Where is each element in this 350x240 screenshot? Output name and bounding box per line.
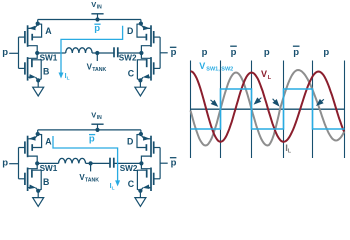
svg-text:p: p <box>264 47 270 58</box>
capacitor C tank <box>113 47 115 57</box>
wire: P input <box>9 52 18 54</box>
svg-text:p: p <box>202 47 208 58</box>
wire: Pbar input <box>160 52 168 54</box>
capacitor C tank <box>109 158 111 168</box>
cyan current route ckt2 <box>53 136 118 182</box>
transistor A (PMOS) <box>19 130 42 164</box>
wire: left gate bus <box>18 148 20 179</box>
ground <box>33 87 44 96</box>
wire: P input <box>9 163 18 165</box>
node SW2 <box>139 161 143 165</box>
wire: right gate bus <box>159 37 161 68</box>
svg-text:p: p <box>171 158 177 169</box>
svg-text:p: p <box>293 47 299 58</box>
node SW1 <box>35 51 39 55</box>
transistor D (PMOS) <box>137 20 160 54</box>
svg-text:p: p <box>323 47 329 58</box>
chart arrows at zero crossings <box>211 100 216 104</box>
wire: top rail <box>38 19 141 21</box>
svg-text:V: V <box>261 69 267 79</box>
wire cap to SW2 <box>118 52 142 54</box>
transistor B (NMOS) <box>19 163 42 197</box>
svg-text:D: D <box>127 136 133 146</box>
transistor A (PMOS) <box>19 20 42 54</box>
svg-text:IN: IN <box>97 5 102 11</box>
transistor C (NMOS) <box>137 163 160 197</box>
svg-text:V: V <box>91 110 96 119</box>
svg-text:SW2: SW2 <box>119 54 137 63</box>
wire: left gate bus <box>18 37 20 68</box>
svg-text:A: A <box>45 26 52 36</box>
wire SW1 to inductor <box>37 162 58 164</box>
wire inductor to cap <box>86 162 110 164</box>
node SW1 <box>35 161 39 165</box>
node VTANK tap <box>95 51 99 55</box>
wire inductor to cap <box>92 52 114 54</box>
wire SW1 to inductor <box>37 52 65 54</box>
svg-text:SW1: SW1 <box>40 54 58 63</box>
svg-text:p: p <box>171 47 177 58</box>
svg-text:TANK: TANK <box>85 177 99 183</box>
svg-text:D: D <box>127 26 133 36</box>
svg-text:L: L <box>67 75 70 81</box>
chart gridlines <box>190 61 192 159</box>
transistor C (NMOS) <box>137 53 160 87</box>
svg-text:A: A <box>45 136 52 146</box>
inductor L tank <box>66 48 92 53</box>
node VTANK tap <box>89 161 93 165</box>
svg-text:SW1, SW2: SW1, SW2 <box>206 67 233 73</box>
transistor D (PMOS) <box>137 130 160 164</box>
svg-text:IN: IN <box>97 115 102 121</box>
node VIN supply <box>91 123 103 125</box>
svg-text:p: p <box>2 158 8 169</box>
waveform VL (maroon sine) <box>191 71 345 142</box>
svg-text:V: V <box>199 61 205 71</box>
ground <box>33 198 44 207</box>
waveform VSW (cyan square) <box>191 89 345 129</box>
svg-text:SW1: SW1 <box>40 164 58 173</box>
cyan current route ckt1 <box>61 26 123 75</box>
waveform IL (gray sine) <box>191 70 345 146</box>
node VIN supply <box>91 13 103 15</box>
svg-text:L: L <box>112 185 115 191</box>
svg-text:B: B <box>43 177 49 187</box>
ground <box>135 198 146 207</box>
node SW2 <box>139 51 143 55</box>
svg-text:SW2: SW2 <box>120 164 138 173</box>
ground <box>135 87 146 96</box>
transistor B (NMOS) <box>19 53 42 87</box>
svg-text:C: C <box>128 69 135 79</box>
chart center line <box>191 108 345 110</box>
svg-text:p: p <box>2 47 8 58</box>
svg-text:p: p <box>231 47 237 58</box>
wire: Pbar input <box>160 162 168 164</box>
svg-text:TANK: TANK <box>92 67 106 73</box>
wire cap to SW2 <box>114 162 142 164</box>
svg-text:B: B <box>43 67 49 77</box>
wire: right gate bus <box>159 148 161 179</box>
svg-text:C: C <box>128 179 135 189</box>
svg-text:V: V <box>91 0 96 9</box>
wire: top rail <box>38 129 141 131</box>
inductor L tank <box>59 158 86 163</box>
